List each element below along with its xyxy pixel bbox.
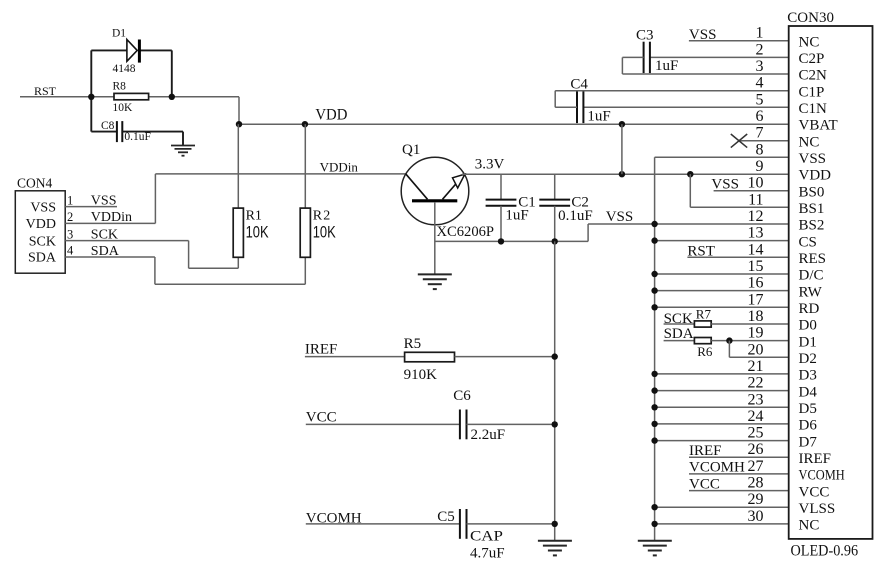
svg-text:BS2: BS2	[799, 218, 825, 234]
svg-text:SCK: SCK	[91, 227, 118, 242]
svg-text:OLED-0.96: OLED-0.96	[791, 543, 859, 560]
svg-text:VCC: VCC	[306, 410, 337, 426]
svg-text:D1: D1	[799, 334, 817, 350]
svg-text:R5: R5	[404, 336, 422, 352]
svg-text:BS1: BS1	[799, 201, 825, 217]
svg-text:VLSS: VLSS	[799, 501, 836, 517]
svg-text:VSS: VSS	[799, 151, 827, 167]
svg-text:C8: C8	[101, 120, 115, 132]
svg-text:RW: RW	[799, 284, 823, 300]
svg-text:10K: 10K	[246, 223, 270, 242]
svg-text:CON4: CON4	[17, 176, 53, 191]
svg-text:1uF: 1uF	[655, 58, 678, 74]
svg-text:Q1: Q1	[402, 142, 420, 158]
svg-text:24: 24	[748, 408, 764, 425]
svg-text:10K: 10K	[313, 223, 337, 242]
svg-text:28: 28	[748, 475, 764, 492]
svg-text:C2P: C2P	[799, 51, 825, 67]
svg-text:VCOMH: VCOMH	[689, 460, 745, 476]
svg-text:D6: D6	[799, 418, 818, 434]
svg-text:9: 9	[756, 158, 764, 175]
svg-text:2.2uF: 2.2uF	[471, 427, 506, 443]
svg-text:D4: D4	[799, 384, 818, 400]
svg-text:RES: RES	[799, 251, 827, 267]
svg-text:0.1uF: 0.1uF	[124, 131, 151, 143]
svg-text:2: 2	[67, 210, 73, 224]
svg-text:C2N: C2N	[799, 68, 828, 84]
svg-text:20: 20	[748, 341, 764, 358]
svg-text:19: 19	[748, 325, 764, 342]
svg-text:C4: C4	[570, 76, 588, 92]
svg-text:10K: 10K	[113, 102, 134, 114]
svg-text:C3: C3	[636, 28, 654, 44]
svg-text:3: 3	[67, 227, 73, 241]
svg-text:VSS: VSS	[606, 209, 634, 225]
svg-text:29: 29	[748, 491, 764, 508]
svg-text:13: 13	[748, 225, 764, 242]
svg-text:D0: D0	[799, 318, 817, 334]
svg-text:C1P: C1P	[799, 84, 825, 100]
svg-text:4: 4	[67, 244, 74, 258]
svg-text:910K: 910K	[404, 367, 438, 383]
svg-text:SDA: SDA	[91, 244, 120, 259]
svg-text:VSS: VSS	[689, 27, 717, 43]
svg-text:8: 8	[756, 141, 764, 158]
svg-text:0.1uF: 0.1uF	[558, 208, 593, 224]
svg-text:21: 21	[748, 358, 764, 375]
svg-text:SDA: SDA	[28, 251, 57, 266]
svg-text:VSS: VSS	[30, 200, 56, 215]
svg-text:SDA: SDA	[664, 326, 694, 342]
svg-text:6: 6	[756, 108, 764, 125]
svg-text:14: 14	[748, 241, 764, 258]
svg-text:4148: 4148	[113, 63, 136, 75]
svg-text:22: 22	[748, 375, 764, 392]
svg-text:18: 18	[748, 308, 764, 325]
svg-text:NC: NC	[799, 34, 820, 50]
svg-text:RST: RST	[687, 243, 715, 259]
svg-text:1: 1	[756, 25, 764, 42]
svg-text:C6: C6	[453, 388, 471, 404]
svg-text:R7: R7	[696, 307, 712, 322]
svg-text:SCK: SCK	[664, 311, 693, 327]
svg-text:R1: R1	[246, 209, 262, 224]
svg-text:3: 3	[756, 58, 764, 75]
svg-text:R8: R8	[113, 81, 127, 93]
svg-text:1uF: 1uF	[587, 108, 610, 124]
svg-text:11: 11	[748, 191, 763, 208]
svg-text:10: 10	[748, 175, 764, 192]
svg-text:VDDin: VDDin	[91, 210, 132, 225]
svg-text:4.7uF: 4.7uF	[470, 545, 505, 561]
svg-text:VDDin: VDDin	[320, 159, 359, 174]
svg-text:BS0: BS0	[799, 184, 825, 200]
svg-text:R 2: R 2	[313, 209, 331, 224]
svg-text:16: 16	[748, 275, 764, 292]
svg-text:25: 25	[748, 425, 764, 442]
svg-text:3.3V: 3.3V	[475, 157, 505, 173]
svg-text:VSS: VSS	[91, 193, 117, 208]
svg-text:VSS: VSS	[711, 176, 739, 192]
svg-text:1: 1	[67, 193, 73, 207]
svg-text:VCOMH: VCOMH	[799, 468, 845, 484]
svg-text:RD: RD	[799, 301, 820, 317]
svg-text:D/C: D/C	[799, 268, 824, 284]
svg-text:12: 12	[748, 208, 764, 225]
svg-text:5: 5	[756, 91, 764, 108]
svg-text:VCC: VCC	[799, 484, 830, 500]
svg-text:IREF: IREF	[799, 451, 832, 467]
svg-text:17: 17	[748, 291, 764, 308]
svg-text:4: 4	[756, 75, 764, 92]
svg-text:VDD: VDD	[799, 168, 832, 184]
svg-text:27: 27	[748, 458, 764, 475]
svg-text:7: 7	[756, 125, 764, 142]
svg-text:D1: D1	[112, 28, 126, 40]
svg-text:NC: NC	[799, 134, 820, 150]
svg-text:D5: D5	[799, 401, 817, 417]
svg-text:CS: CS	[799, 234, 817, 250]
svg-text:15: 15	[748, 258, 764, 275]
svg-text:C1N: C1N	[799, 101, 828, 117]
svg-text:IREF: IREF	[305, 341, 338, 357]
svg-text:XC6206P: XC6206P	[437, 224, 495, 240]
svg-text:IREF: IREF	[689, 443, 722, 459]
svg-text:D3: D3	[799, 368, 817, 384]
svg-text:VCC: VCC	[689, 476, 720, 492]
svg-text:26: 26	[748, 441, 764, 458]
svg-text:NC: NC	[799, 518, 820, 534]
svg-text:D7: D7	[799, 434, 818, 450]
svg-text:R6: R6	[697, 344, 713, 359]
svg-text:VDD: VDD	[26, 217, 56, 232]
svg-text:RST: RST	[34, 84, 57, 98]
svg-text:1uF: 1uF	[505, 207, 528, 223]
svg-text:VCOMH: VCOMH	[306, 511, 362, 527]
svg-text:D2: D2	[799, 351, 817, 367]
svg-text:CAP: CAP	[470, 529, 503, 545]
svg-text:VBAT: VBAT	[799, 118, 838, 134]
svg-text:2: 2	[756, 41, 764, 58]
svg-text:30: 30	[748, 508, 764, 525]
svg-text:23: 23	[748, 391, 764, 408]
svg-text:VDD: VDD	[315, 107, 347, 124]
svg-text:SCK: SCK	[29, 234, 56, 249]
svg-text:CON30: CON30	[787, 10, 834, 26]
svg-text:C5: C5	[437, 509, 455, 525]
